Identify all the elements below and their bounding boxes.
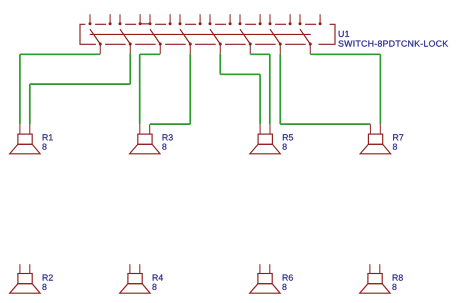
speaker R3 pin 1 (139, 124, 141, 134)
label R2 value 8 (42, 284, 46, 290)
switch U1 section 5 throw contact pin 10 (229, 14, 232, 25)
switch U1 section 5 lever (210, 29, 220, 44)
switch U1 section 6 lever (240, 29, 250, 44)
switch U1 section 8 lever (300, 29, 310, 44)
switch U1 linkage dash bottom 7 (285, 43, 306, 45)
speaker R5 body (250, 134, 281, 154)
wire U1 pin8 to R7 right pin (310, 54, 380, 124)
label R5 value 8 (283, 144, 287, 150)
switch U1 section 8 throw contact pin 16 (319, 14, 322, 25)
speaker R7 body (360, 134, 391, 154)
switch U1 common rail line (90, 33, 311, 35)
switch U1 section 1 lever (90, 29, 100, 44)
label R5 refdes (283, 134, 293, 140)
speaker R3 pin 2 (149, 124, 151, 134)
switch U1 section 2 common pin P2 (129, 43, 132, 55)
switch U1 linkage dash top section 8 (305, 23, 316, 25)
switch U1 section 4 throw contact pin 8 (199, 14, 202, 25)
speaker R3 body (130, 134, 161, 154)
switch U1 section 5 throw contact pin 9 (209, 14, 212, 25)
speaker R6 body (250, 274, 281, 294)
speaker R5 pin 1 (259, 124, 261, 134)
wire U1 pin3 to R3 left pin (140, 54, 161, 124)
switch U1 section 1 common pin P1 (99, 43, 102, 55)
speaker R1 body (10, 134, 41, 154)
speaker R8 pin 1 (369, 264, 371, 273)
wire U1 pin1 to R1 left pin (20, 54, 100, 124)
speaker R6 pin 2 (269, 264, 271, 273)
switch U1 linkage dash top section 6 (245, 23, 256, 25)
switch U1 section 3 lever (150, 29, 160, 44)
switch U1 linkage dash bottom 4 (195, 43, 216, 45)
switch U1 section 2 lever (120, 29, 130, 44)
label R4 refdes (153, 275, 163, 281)
label R7 refdes (393, 134, 403, 140)
label R6 value 8 (282, 284, 286, 290)
speaker R2 pin 1 (19, 264, 21, 273)
switch U1 section 3 throw contact pin 5 (149, 14, 152, 25)
switch U1 section 3 throw contact pin 6 (169, 14, 172, 25)
switch U1 section 2 throw contact pin 3 (119, 14, 122, 25)
switch U1 section 4 lever (180, 29, 190, 44)
switch U1 linkage dash top section 7 (275, 23, 286, 25)
switch U1 section 7 throw contact pin 13 (269, 14, 272, 25)
speaker R5 pin 2 (269, 124, 271, 134)
wire U1 pin5 to R5 left pin (220, 54, 260, 124)
switch U1 section 8 throw contact pin 15 (299, 14, 302, 25)
label R2 refdes (43, 275, 53, 281)
switch U1 section 1 throw contact pin 2 (109, 14, 112, 25)
wire U1 pin2 to R1 right pin (30, 54, 130, 124)
switch U1 linkage dash bottom 2 (135, 43, 156, 45)
speaker R1 pin 2 (29, 124, 31, 134)
switch U1 section 4 throw contact pin 7 (179, 14, 182, 25)
wire U1 pin7 to R7 left pin (280, 54, 370, 124)
speaker R7 pin 1 (369, 124, 371, 134)
switch U1 section 6 throw contact pin 12 (259, 14, 262, 25)
label R1 value 8 (42, 144, 46, 150)
switch U1 linkage dash top section 3 (155, 23, 166, 25)
label R3 refdes (163, 134, 173, 140)
wire link between U1 top pins 4 and 5 (140, 23, 150, 25)
switch U1 section 7 lever (270, 29, 280, 44)
label U1 refdes (339, 31, 349, 37)
speaker R7 pin 2 (379, 124, 381, 134)
speaker R6 pin 1 (259, 264, 261, 273)
speaker R4 pin 2 (139, 264, 141, 273)
wire U1 pin6 to R5 right pin (250, 54, 270, 124)
switch U1 section 8 common pin P8 (309, 43, 312, 55)
switch U1 right bracket (318, 24, 335, 44)
switch U1 section 7 throw contact pin 14 (289, 14, 292, 25)
switch U1 section 2 throw contact pin 4 (139, 14, 142, 25)
label R8 value 8 (392, 284, 396, 290)
switch U1 section 6 throw contact pin 11 (239, 14, 242, 25)
label R6 refdes (283, 275, 293, 281)
switch U1 linkage dash top section 5 (215, 23, 226, 25)
speaker R8 pin 2 (379, 264, 381, 273)
switch U1 left bracket (80, 24, 96, 44)
switch U1 section 4 common pin P4 (189, 43, 192, 55)
speaker R2 pin 2 (29, 264, 31, 273)
label R4 value 8 (152, 284, 156, 290)
speaker R8 body (360, 274, 391, 294)
speaker R2 body (10, 274, 41, 294)
switch U1 section 1 throw contact pin 1 (89, 14, 92, 25)
speaker R4 body (120, 274, 150, 294)
speaker R1 pin 1 (19, 124, 21, 134)
switch U1 linkage dash bottom 5 (225, 43, 246, 45)
switch U1 linkage dash bottom 1 (105, 43, 126, 45)
label R3 value 8 (162, 144, 166, 150)
label U1 value SWITCH-8PDTCNK-LOCK (338, 41, 448, 47)
label R7 value 8 (393, 144, 397, 150)
switch U1 section 7 common pin P7 (279, 43, 282, 55)
switch U1 linkage dash top section 4 (185, 23, 196, 25)
speaker R4 pin 1 (129, 264, 131, 273)
switch U1 linkage dash bottom 3 (165, 43, 186, 45)
label R1 refdes (43, 134, 53, 140)
switch U1 linkage dash top section 2 (125, 23, 136, 25)
switch U1 linkage dash bottom 6 (255, 43, 276, 45)
wire U1 pin4 to R3 right pin (150, 54, 190, 124)
switch U1 SWITCH-8PDTCNK-LOCK (80, 14, 335, 54)
switch U1 section 3 common pin P3 (159, 43, 162, 55)
switch U1 section 5 common pin P5 (219, 43, 222, 55)
label R8 refdes (393, 275, 403, 281)
switch U1 section 6 common pin P6 (249, 43, 252, 55)
switch U1 linkage dash top section 1 (95, 23, 106, 25)
